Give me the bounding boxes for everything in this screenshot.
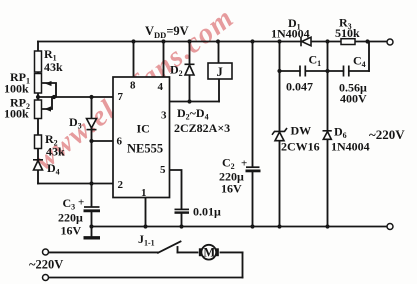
terminal bottom right xyxy=(387,224,393,230)
svg-text:5: 5 xyxy=(160,164,166,176)
wire C1/C4 line xyxy=(280,70,370,72)
svg-text:IC: IC xyxy=(137,122,150,136)
wire D2 branch xyxy=(189,42,191,102)
svg-text:43k: 43k xyxy=(44,60,63,74)
wire bottom rail (ground net) xyxy=(92,226,387,228)
svg-text:0.01μ: 0.01μ xyxy=(193,205,221,219)
wire bottom return xyxy=(49,277,243,279)
svg-text:NE555: NE555 xyxy=(127,142,163,156)
op IC U1 NE555 box xyxy=(113,77,170,198)
motor M xyxy=(200,245,217,260)
switch fixed contact xyxy=(177,247,179,252)
svg-text:220μ: 220μ xyxy=(58,211,83,225)
wire pin1 xyxy=(145,198,147,227)
svg-text:1N4004: 1N4004 xyxy=(331,140,370,154)
wire pin8 xyxy=(133,42,135,78)
diode D1 xyxy=(301,37,311,47)
RP2 wiper arrow xyxy=(45,106,52,111)
svg-text:16V: 16V xyxy=(61,224,82,238)
svg-text:16V: 16V xyxy=(221,182,242,196)
resistor R1 xyxy=(35,51,42,72)
svg-text:J: J xyxy=(217,65,223,79)
svg-text:~220V: ~220V xyxy=(369,127,405,142)
capacitor C4 xyxy=(344,65,349,78)
svg-text:100k: 100k xyxy=(4,82,29,96)
diode D6 xyxy=(323,131,332,140)
wire C4 right vertical xyxy=(368,42,370,72)
RP1 wiper arrow xyxy=(45,81,52,86)
svg-text:0.047: 0.047 xyxy=(286,80,313,94)
wire switch to motor xyxy=(178,251,198,253)
wire relay J top lead xyxy=(218,42,220,64)
switch J1-1 blade xyxy=(158,242,181,253)
wire pin6 line xyxy=(92,140,114,142)
svg-text:400V: 400V xyxy=(340,92,367,106)
terminal motor bottom xyxy=(43,275,49,281)
terminal top right xyxy=(387,39,393,45)
wire DW branch xyxy=(279,42,281,227)
svg-text:VDD=9V: VDD=9V xyxy=(145,24,189,40)
wire from terminal to switch xyxy=(49,251,159,253)
resistor R2 xyxy=(35,135,42,149)
svg-text:8: 8 xyxy=(130,80,136,92)
terminal motor top xyxy=(43,249,49,255)
capacitor 0.01u xyxy=(175,209,190,212)
potentiometer RP2 xyxy=(35,100,42,119)
wire relay J bottom lead xyxy=(218,79,220,102)
potentiometer RP1 xyxy=(35,74,42,94)
wire RP2 wiper stub xyxy=(43,97,52,109)
svg-text:+: + xyxy=(241,158,247,170)
wire pin3 line xyxy=(170,101,220,103)
zener DW xyxy=(272,128,287,141)
svg-text:7: 7 xyxy=(118,91,124,103)
diode D4 xyxy=(33,160,43,170)
wire pin5 to 0.01u cap xyxy=(170,170,182,227)
motor circuit wires xyxy=(49,242,243,278)
wire RP1 wiper stub xyxy=(43,83,56,97)
svg-text:~220V: ~220V xyxy=(29,258,63,272)
junction dots top rail xyxy=(131,39,369,43)
svg-text:DW: DW xyxy=(291,124,312,138)
diode D2 xyxy=(185,64,195,75)
wire C2 branch xyxy=(252,42,254,227)
wire VDD top rail xyxy=(38,41,387,43)
svg-text:2CZ82A×3: 2CZ82A×3 xyxy=(174,121,230,135)
svg-text:+: + xyxy=(78,197,84,209)
relay coil J xyxy=(208,63,232,79)
svg-text:6: 6 xyxy=(117,136,123,148)
junction dots bottom rail xyxy=(89,224,329,228)
svg-text:2CW16: 2CW16 xyxy=(281,140,320,154)
junction dots node/pin lines xyxy=(36,69,330,186)
wire left branch (R1/RP1/RP2/R2/D4 string) xyxy=(37,42,39,184)
wire pin2 line xyxy=(38,183,113,185)
svg-text:510k: 510k xyxy=(335,26,360,40)
svg-text:100k: 100k xyxy=(4,107,29,121)
svg-text:1: 1 xyxy=(141,187,147,199)
wire pin4 xyxy=(163,42,165,78)
svg-text:1N4004: 1N4004 xyxy=(271,27,310,41)
capacitor C1 xyxy=(300,65,305,78)
svg-text:3: 3 xyxy=(161,110,167,122)
svg-text:D2~D4: D2~D4 xyxy=(177,106,209,122)
wire D3/C3 vertical branch xyxy=(91,97,93,227)
svg-text:2: 2 xyxy=(118,179,124,191)
resistor R3 xyxy=(341,39,355,45)
svg-text:M: M xyxy=(203,246,215,260)
node line to pin 7 xyxy=(38,96,113,98)
svg-text:4: 4 xyxy=(158,81,164,93)
ground stub xyxy=(91,227,93,237)
ground bar xyxy=(84,236,101,239)
wire motor to corner xyxy=(221,251,243,253)
wire D6 branch xyxy=(327,42,329,227)
capacitor C2 xyxy=(246,167,261,171)
wire right drop xyxy=(242,252,244,277)
svg-text:43k: 43k xyxy=(46,145,65,159)
diode D3 xyxy=(87,119,97,130)
capacitor C3 xyxy=(84,207,101,211)
